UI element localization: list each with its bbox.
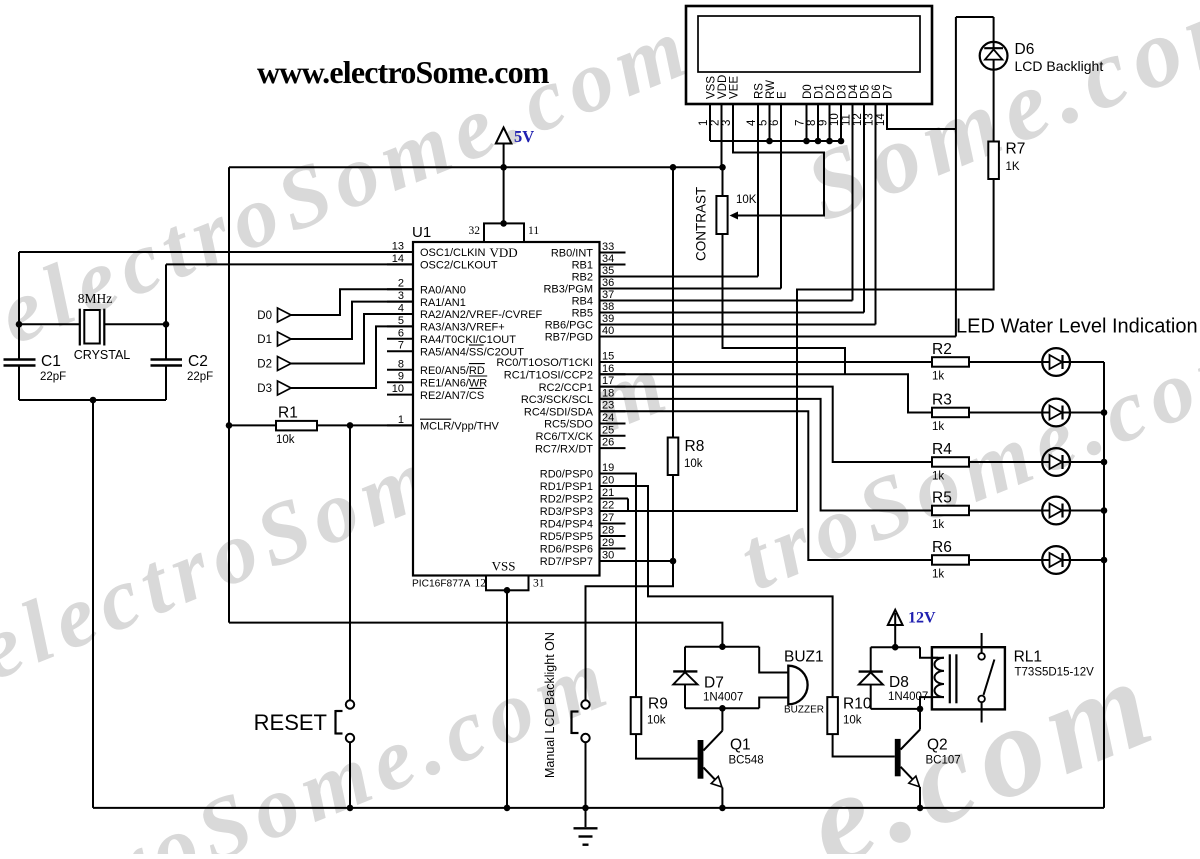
wire RD7 to button (586, 561, 674, 700)
svg-text:CRYSTAL: CRYSTAL (74, 348, 131, 362)
power 12V symbol (888, 610, 936, 648)
wire OSC1 run (19, 251, 413, 253)
node LCD ground junction (766, 138, 773, 145)
svg-text:14: 14 (392, 253, 404, 265)
svg-text:RW: RW (765, 80, 777, 99)
svg-text:15: 15 (602, 351, 614, 363)
wire RC to R4 route (600, 387, 933, 462)
svg-text:22pF: 22pF (40, 371, 66, 383)
svg-text:U1: U1 (412, 224, 431, 241)
svg-text:CONTRAST: CONTRAST (694, 187, 709, 261)
node R1-reset junction (347, 422, 354, 429)
svg-text:RD2/PSP2: RD2/PSP2 (540, 494, 593, 506)
wire OSC2 run (166, 263, 413, 265)
svg-text:C2: C2 (188, 353, 208, 370)
svg-text:RA0/AN0: RA0/AN0 (420, 284, 466, 296)
crystal X1 8MHz (74, 291, 131, 362)
wire coil top link (920, 647, 938, 658)
wire button to ground (585, 742, 587, 808)
wire crystal bottom horizontal (19, 399, 166, 401)
svg-text:RL1: RL1 (1014, 649, 1042, 666)
svg-text:C1: C1 (41, 353, 61, 370)
svg-text:RB0/INT: RB0/INT (551, 248, 593, 260)
capacitor C2 22pF (151, 353, 214, 383)
wire 5V rail left drop (228, 167, 230, 622)
wire crystal ground drop (92, 400, 94, 808)
node Q2 collector junction (917, 706, 924, 713)
svg-text:4: 4 (398, 303, 404, 315)
svg-text:OSC1/CLKIN: OSC1/CLKIN (420, 247, 485, 259)
svg-text:40: 40 (602, 325, 614, 337)
svg-text:D8: D8 (889, 674, 909, 691)
svg-text:17: 17 (602, 375, 614, 387)
switch RESET pushbutton (254, 700, 355, 742)
node R1-left junction (226, 422, 233, 429)
wire LED cathode bus (1103, 362, 1105, 808)
svg-text:D0: D0 (257, 310, 272, 322)
op-amp U1 PIC16F877A body (412, 220, 600, 594)
svg-text:D6: D6 (1015, 41, 1035, 58)
svg-text:R1: R1 (278, 405, 298, 422)
svg-text:R8: R8 (685, 438, 705, 455)
svg-text:10k: 10k (684, 458, 703, 470)
svg-text:3: 3 (721, 120, 733, 126)
svg-text:D4: D4 (848, 84, 860, 99)
svg-text:RB5: RB5 (572, 308, 593, 320)
svg-text:BC548: BC548 (729, 755, 764, 767)
svg-text:R7: R7 (1006, 141, 1026, 158)
svg-text:D2: D2 (257, 359, 272, 371)
svg-text:38: 38 (602, 301, 614, 313)
svg-text:13: 13 (864, 113, 876, 126)
wire D6 top link (956, 16, 994, 18)
svg-text:22pF: 22pF (187, 371, 213, 383)
svg-text:BUZZER: BUZZER (784, 705, 824, 716)
svg-text:1k: 1k (932, 519, 944, 531)
node R8-RD7 junction (670, 558, 677, 565)
resistor R8 10k (668, 438, 705, 476)
svg-text:RA4/T0CKI/C1OUT: RA4/T0CKI/C1OUT (420, 334, 516, 346)
node ground junction (504, 805, 511, 812)
svg-text:9: 9 (398, 371, 404, 383)
svg-text:LED Water Level Indication: LED Water Level Indication (956, 316, 1198, 338)
wire D1 to pin (291, 302, 413, 339)
svg-text:D0: D0 (802, 84, 814, 99)
wire D6 to R7 (993, 70, 995, 142)
led 5 water level (1042, 497, 1070, 525)
svg-text:39: 39 (602, 313, 614, 325)
wire RB2 to LCD RS (600, 276, 759, 278)
wire RB6 to LCD D6 (600, 324, 876, 326)
svg-text:5V: 5V (514, 127, 534, 146)
svg-text:RD1/PSP1: RD1/PSP1 (540, 481, 593, 493)
svg-text:RB7/PGD: RB7/PGD (545, 332, 593, 344)
svg-text:D5: D5 (860, 84, 872, 99)
svg-text:RB3/PGM: RB3/PGM (543, 284, 593, 296)
svg-text:R10: R10 (843, 696, 872, 713)
wire RC to R6 route (600, 411, 933, 560)
svg-text:11: 11 (841, 114, 853, 126)
wire ground bus (93, 807, 1104, 809)
wire pin21-22 jumper stub (600, 499, 629, 512)
svg-text:6: 6 (769, 120, 781, 126)
svg-text:5: 5 (758, 120, 770, 126)
svg-text:R3: R3 (932, 392, 952, 409)
wire RB3 to LCD E (600, 288, 782, 290)
svg-text:23: 23 (602, 400, 614, 412)
svg-text:1N4007: 1N4007 (703, 692, 743, 704)
node buzzer bottom junction (719, 705, 726, 712)
wire D2 to pin (291, 314, 413, 364)
node buzzer top junction (719, 643, 726, 650)
wire D7-RB7 vertical (955, 17, 957, 337)
svg-text:RESET: RESET (254, 710, 327, 735)
svg-text:12: 12 (475, 578, 487, 590)
svg-text:RD4/PSP4: RD4/PSP4 (540, 519, 593, 531)
wire LCD pin14 route (887, 104, 956, 129)
wire crystal horizontal (19, 323, 166, 325)
svg-text:28: 28 (602, 525, 614, 537)
svg-text:MCLR/Vpp/THV: MCLR/Vpp/THV (420, 421, 500, 433)
wire Q1 emitter to ground (721, 788, 723, 808)
node ground junction (917, 805, 924, 812)
svg-text:D1: D1 (257, 334, 272, 346)
svg-text:27: 27 (602, 512, 614, 524)
svg-text:11: 11 (528, 225, 539, 237)
svg-text:10k: 10k (843, 715, 862, 727)
svg-text:Q1: Q1 (730, 737, 751, 754)
wire R8 top (672, 167, 674, 437)
wire R4 to LED (969, 461, 1042, 463)
wire LED R3 to bus (1070, 412, 1104, 414)
resistor R5 1k (932, 490, 969, 532)
svg-text:12V: 12V (908, 610, 936, 627)
svg-text:9: 9 (818, 120, 830, 126)
diode D8 1N4007 (859, 647, 929, 709)
svg-text:RA3/AN3/VREF+: RA3/AN3/VREF+ (420, 322, 505, 334)
wire Q1 collector (721, 708, 723, 730)
svg-text:1: 1 (698, 120, 710, 126)
resistor R7 1K (988, 141, 1025, 180)
svg-text:RC5/SDO: RC5/SDO (544, 419, 593, 431)
wire RC to R3 route (600, 374, 933, 412)
wire pot bottom route (723, 234, 846, 374)
svg-text:RC1/T1OSI/CCP2: RC1/T1OSI/CCP2 (504, 370, 593, 382)
svg-text:4: 4 (746, 119, 758, 126)
svg-text:RD0/PSP0: RD0/PSP0 (540, 469, 593, 481)
wire R2 to LED (969, 361, 1042, 363)
wire R1 left (229, 424, 276, 426)
wire Q2 collector (919, 709, 921, 730)
svg-text:8MHz: 8MHz (78, 291, 113, 306)
svg-text:10: 10 (829, 113, 841, 126)
wire C2 top vertical (165, 264, 167, 359)
svg-text:D2: D2 (825, 84, 837, 99)
ground symbol (574, 808, 598, 845)
node crystal-left junction (16, 321, 23, 328)
wire RC0 to R2 (600, 361, 933, 363)
svg-text:10K: 10K (736, 194, 757, 206)
wire coil bottom link (920, 697, 932, 709)
led D6 LCD Backlight (980, 17, 1104, 74)
wire 5V rail (229, 166, 723, 168)
svg-text:RD5/PSP5: RD5/PSP5 (540, 531, 593, 543)
power 5V symbol (496, 127, 534, 223)
svg-text:RS: RS (754, 83, 766, 99)
svg-text:D3: D3 (257, 383, 272, 395)
resistor R1 10k (276, 405, 317, 447)
svg-text:R4: R4 (932, 441, 952, 458)
wire RD1 to R10 (600, 486, 833, 697)
buffer D1 input (257, 332, 291, 346)
transistor Q2 BC107 (895, 730, 961, 787)
diode D7 1N4007 (673, 647, 743, 709)
svg-text:1k: 1k (932, 569, 944, 581)
svg-text:RB4: RB4 (572, 296, 593, 308)
switch Manual LCD Backlight ON pushbutton (543, 632, 590, 778)
svg-text:RB1: RB1 (572, 260, 593, 272)
resistor R9 10k (631, 696, 668, 735)
svg-text:D7: D7 (704, 675, 724, 692)
svg-text:5: 5 (398, 315, 404, 327)
wire C2 bottom (165, 366, 167, 401)
U1 left pin stubs with numbers and names (387, 241, 543, 433)
wire reset to ground (349, 742, 351, 808)
node LCD ground junction (838, 138, 845, 145)
svg-text:VDD: VDD (717, 75, 729, 99)
wire R7 to RD3 route (628, 179, 994, 511)
wire reset vertical (349, 425, 351, 700)
wire Q2 emitter to ground (919, 787, 921, 808)
svg-text:RD3/PSP3: RD3/PSP3 (540, 506, 593, 518)
svg-text:RC0/T1OSO/T1CKI: RC0/T1OSO/T1CKI (496, 357, 593, 369)
svg-text:3: 3 (398, 290, 404, 302)
buffer D3 input (257, 381, 291, 395)
node LED bus junction (1101, 409, 1108, 416)
node LCD ground junction (826, 138, 833, 145)
led 2 water level (1042, 348, 1070, 376)
svg-text:32: 32 (469, 225, 481, 237)
svg-text:R9: R9 (648, 696, 668, 713)
svg-text:VDD: VDD (490, 245, 518, 260)
svg-text:29: 29 (602, 537, 614, 549)
wire pot wiper route (730, 104, 825, 220)
wire D0 to pin (291, 289, 413, 315)
svg-text:RA2/AN2/VREF-/CVREF: RA2/AN2/VREF-/CVREF (420, 309, 543, 321)
wire LED R4 to bus (1070, 461, 1104, 463)
node LED bus junction (1101, 459, 1108, 466)
capacitor C1 22pF (4, 353, 67, 383)
svg-text:35: 35 (602, 265, 614, 277)
resistor R6 1k (932, 539, 969, 581)
svg-text:20: 20 (602, 475, 614, 487)
svg-text:33: 33 (602, 241, 614, 253)
svg-text:1k: 1k (932, 421, 944, 433)
svg-text:R6: R6 (932, 539, 952, 556)
wire R6 to LED (969, 559, 1042, 561)
node LCD ground junction (815, 138, 822, 145)
svg-text:25: 25 (602, 424, 614, 436)
svg-text:10k: 10k (276, 434, 295, 446)
svg-text:RA1/AN1: RA1/AN1 (420, 297, 466, 309)
svg-text:R5: R5 (932, 490, 952, 507)
svg-text:RE0/AN5/RD: RE0/AN5/RD (420, 365, 485, 377)
wire D8 bottom rail (871, 708, 920, 710)
svg-text:RE1/AN6/WR: RE1/AN6/WR (420, 377, 487, 389)
title www.electroSome.com (257, 54, 550, 90)
svg-text:37: 37 (602, 289, 614, 301)
svg-text:OSC2/CLKOUT: OSC2/CLKOUT (420, 260, 498, 272)
node LED bus junction (1101, 507, 1108, 514)
svg-text:VEE: VEE (729, 76, 741, 99)
wire crystal left vertical (18, 252, 20, 360)
wire RD7 run (600, 560, 674, 562)
svg-text:RB6/PGC: RB6/PGC (545, 320, 593, 332)
svg-text:RD7/PSP7: RD7/PSP7 (540, 556, 593, 568)
node crystal-right junction (163, 321, 170, 328)
wire C1 bottom (18, 366, 20, 401)
node 12V junction (892, 644, 899, 651)
svg-text:1k: 1k (932, 371, 944, 383)
svg-text:34: 34 (602, 253, 614, 265)
wire R5 to LED (969, 510, 1042, 512)
svg-text:RD6/PSP6: RD6/PSP6 (540, 544, 593, 556)
node LED bus junction (1101, 557, 1108, 564)
wire D3 to pin (291, 326, 413, 388)
wire R10 to Q2 base (833, 734, 895, 756)
led 6 water level (1042, 546, 1070, 574)
wire RD0 to R9 (600, 474, 637, 698)
svg-text:1K: 1K (1006, 161, 1020, 173)
svg-text:RC3/SCK/SCL: RC3/SCK/SCL (521, 394, 593, 406)
svg-text:7: 7 (795, 120, 807, 126)
wire LED R2 to bus (1070, 361, 1104, 363)
node LCD ground junction (803, 138, 810, 145)
svg-text:1: 1 (398, 414, 404, 426)
wire buzzer top rail (685, 646, 759, 648)
svg-text:8: 8 (398, 358, 404, 370)
svg-text:8: 8 (806, 120, 818, 126)
potentiometer RV1 10K CONTRAST (694, 167, 757, 261)
svg-text:D1: D1 (814, 84, 826, 99)
svg-text:19: 19 (602, 462, 614, 474)
node ground junction (582, 805, 589, 812)
led 3 water level (1042, 399, 1070, 427)
svg-text:RC7/RX/DT: RC7/RX/DT (535, 443, 593, 455)
svg-text:16: 16 (602, 363, 614, 375)
svg-text:BUZ1: BUZ1 (784, 649, 824, 666)
svg-text:26: 26 (602, 437, 614, 449)
svg-text:PIC16F877A: PIC16F877A (412, 579, 471, 590)
resistor R2 1k (932, 341, 969, 383)
svg-text:13: 13 (392, 241, 404, 253)
node rail-R8 junction (670, 164, 677, 171)
wire RB4 to LCD D4 (600, 300, 853, 302)
svg-text:VSS: VSS (706, 76, 718, 99)
wire LCD pin drops (710, 104, 876, 325)
svg-text:E: E (777, 91, 789, 99)
buffer D0 input (257, 308, 291, 322)
svg-text:30: 30 (602, 550, 614, 562)
relay RL1 T73S5D15-12V (932, 633, 1094, 723)
svg-text:RB2: RB2 (572, 272, 593, 284)
buzzer BUZ1 (759, 647, 824, 716)
resistor R10 10k (827, 696, 872, 735)
node crystal-ground junction (90, 397, 97, 404)
wire LED R5 to bus (1070, 510, 1104, 512)
resistor R3 1k (932, 392, 969, 434)
svg-text:22: 22 (602, 500, 614, 512)
buffer D2 input (257, 357, 291, 371)
wire RB5 to LCD D5 (600, 312, 865, 314)
svg-text:RC4/SDI/SDA: RC4/SDI/SDA (524, 406, 594, 418)
svg-text:12: 12 (852, 113, 864, 126)
svg-text:VSS: VSS (492, 559, 516, 574)
svg-text:14: 14 (875, 113, 887, 126)
wire 5V to buzzer feed (229, 623, 722, 647)
svg-text:D3: D3 (837, 84, 849, 99)
LCD module LM016L (686, 6, 932, 126)
svg-text:2: 2 (398, 278, 404, 290)
svg-text:36: 36 (602, 277, 614, 289)
wire RB7 row run (600, 336, 956, 338)
svg-text:1k: 1k (932, 471, 944, 483)
wire LED R6 to bus (1070, 559, 1104, 561)
svg-text:R2: R2 (932, 341, 952, 358)
svg-text:D7: D7 (883, 84, 895, 99)
svg-text:LCD Backlight: LCD Backlight (1015, 58, 1104, 74)
svg-text:D6: D6 (871, 84, 883, 99)
node ground junction (347, 805, 354, 812)
led 4 water level (1042, 448, 1070, 476)
svg-text:6: 6 (398, 327, 404, 339)
label LED Water Level Indication (956, 316, 1198, 338)
wire LCD ground bus (710, 140, 841, 142)
wire R3 to LED (969, 412, 1042, 414)
svg-text:10: 10 (392, 383, 404, 395)
svg-text:www.electroSome.com: www.electroSome.com (257, 54, 550, 90)
svg-text:21: 21 (602, 487, 614, 499)
svg-text:Q2: Q2 (927, 737, 948, 754)
svg-text:BC107: BC107 (926, 755, 961, 767)
svg-text:RC6/TX/CK: RC6/TX/CK (536, 431, 594, 443)
wire R1 to MCLR (317, 424, 413, 426)
svg-text:2: 2 (710, 120, 722, 126)
wire VSS to ground (506, 590, 508, 808)
node ground junction (719, 805, 726, 812)
wire buzzer bottom rail (685, 707, 759, 709)
svg-text:RC2/CCP1: RC2/CCP1 (539, 382, 593, 394)
svg-text:7: 7 (398, 340, 404, 352)
U1 right pin stubs with numbers and names (496, 241, 625, 568)
svg-text:Manual LCD Backlight ON: Manual LCD Backlight ON (543, 632, 557, 778)
wire R8 bottom (672, 475, 674, 561)
node rail-5V junction (500, 164, 507, 171)
wire RC to R5 route (600, 399, 933, 511)
wire 12V top rail (871, 646, 920, 648)
svg-text:18: 18 (602, 387, 614, 399)
node rail-VDD-pot junction (719, 164, 726, 171)
svg-text:24: 24 (602, 412, 614, 424)
transistor Q1 BC548 (698, 731, 764, 787)
resistor R4 1k (932, 441, 969, 483)
svg-text:RE2/AN7/CS: RE2/AN7/CS (420, 390, 484, 402)
svg-text:31: 31 (533, 578, 545, 590)
wire R9 to Q1 base (636, 734, 698, 759)
svg-text:10k: 10k (647, 715, 666, 727)
svg-text:T73S5D15-12V: T73S5D15-12V (1015, 667, 1095, 679)
